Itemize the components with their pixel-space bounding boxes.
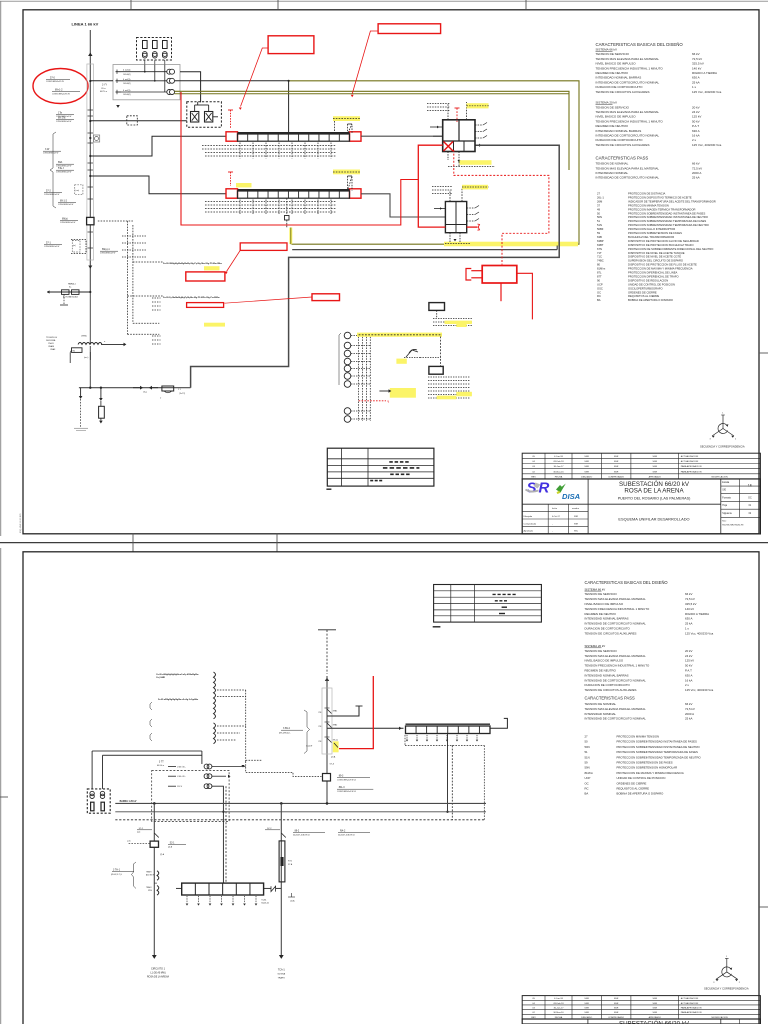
svg-text:DISPOSITIVO DE REGULACION: DISPOSITIVO DE REGULACION xyxy=(628,278,668,282)
svg-text:630 A: 630 A xyxy=(685,673,692,677)
svg-text:30-Jun-17: 30-Jun-17 xyxy=(554,1008,565,1010)
svg-text:TRAFO: TRAFO xyxy=(278,977,286,980)
svg-text:INDICADOR DE TEMPERATURA DEL A: INDICADOR DE TEMPERATURA DEL ACEITE DEL … xyxy=(628,199,716,203)
svg-text:27: 27 xyxy=(597,192,600,196)
metering row 3 xyxy=(116,91,122,93)
breaker 52-1 xyxy=(150,841,158,847)
svg-text:26L-1: 26L-1 xyxy=(597,195,604,199)
red dashed link xyxy=(359,400,386,402)
svg-text:26M: 26M xyxy=(597,199,603,203)
svg-text:ESQUEMA UNIFILAR DESARROLLAD: ESQUEMA UNIFILAR DESARROLLADO xyxy=(618,517,689,522)
sheet 2 drawing frame xyxy=(23,552,759,1029)
svg-text:PARA APROBACION: PARA APROBACION xyxy=(681,1011,702,1014)
svg-text:CONV.DESN-5x9 W: CONV.DESN-5x9 W xyxy=(56,172,72,174)
svg-text:CARACTERISTICAS BASICAS DEL: CARACTERISTICAS BASICAS DEL DISEÑO xyxy=(596,42,684,47)
svg-text:DURACION DE CORTOCIRCUITO: DURACION DE CORTOCIRCUITO xyxy=(596,85,644,89)
svg-text:DISPOSITIVO DE NIVEL DE ACEITE: DISPOSITIVO DE NIVEL DE ACEITE CGTE xyxy=(628,255,681,259)
svg-text:(Ta-): (Ta-) xyxy=(143,392,147,394)
svg-text:4 rail(1): 4 rail(1) xyxy=(123,78,131,81)
PASS red box left legs xyxy=(471,270,482,272)
metering box 3 rows xyxy=(113,65,180,100)
svg-text:2 s: 2 s xyxy=(692,138,697,142)
red leader to row2 box xyxy=(225,297,313,303)
svg-text:PROTECCION SOBRETENSION HOMOPO: PROTECCION SOBRETENSION HOMOPOLAR xyxy=(617,766,678,770)
svg-text:3 TT: 3 TT xyxy=(159,761,164,764)
mini cable table xyxy=(327,448,434,486)
svg-text:24 kV: 24 kV xyxy=(685,654,692,658)
svg-text:63B: 63B xyxy=(597,235,602,239)
svg-text:A52 W3 W: A52 W3 W xyxy=(146,873,154,876)
svg-text:CONV.DESN-5x9/5 W: CONV.DESN-5x9/5 W xyxy=(52,93,70,95)
svg-text:↯: ↯ xyxy=(387,400,390,404)
svg-text:CONV.DESN-5x9 W: CONV.DESN-5x9 W xyxy=(44,194,60,196)
CT circle column xyxy=(344,332,351,339)
brace marks left xyxy=(150,702,152,710)
svg-text:3 (2) W: 3 (2) W xyxy=(306,746,312,748)
svg-text:81M/m: 81M/m xyxy=(585,771,594,775)
svg-text:TENSION DE SERVICIO: TENSION DE SERVICIO xyxy=(585,592,618,596)
left down branch with earth xyxy=(80,388,82,396)
T2 upper-left dashed rows xyxy=(432,186,452,188)
svg-text:AUTOVALVULAS: AUTOVALVULAS xyxy=(63,296,78,299)
svg-text:105-66(1): 105-66(1) xyxy=(123,94,131,96)
svg-text:72,5 kV: 72,5 kV xyxy=(692,166,702,170)
svg-text:66 kV: 66 kV xyxy=(685,702,692,706)
sheet2 main title block partial xyxy=(522,1019,760,1024)
red reference box mid xyxy=(240,243,287,251)
yellow tap busbar B2 left xyxy=(236,183,252,187)
svg-text:TENSION MAS ELEVADA PARA EL MA: TENSION MAS ELEVADA PARA EL MATERIAL xyxy=(585,707,647,711)
contact 89-1w xyxy=(327,738,332,743)
svg-text:1Ta: 1Ta xyxy=(58,112,63,115)
svg-text:U 66:√3/...: U 66:√3/... xyxy=(177,775,187,778)
svg-text:L1 (50,40 MW): L1 (50,40 MW) xyxy=(150,973,165,975)
svg-text:TENSION MAS ELEVADA PARA EL MA: TENSION MAS ELEVADA PARA EL MATERIAL xyxy=(585,654,647,658)
svg-text:DIBUJADO: DIBUJADO xyxy=(581,475,592,478)
svg-text:PROTECCION SOBRETENSION DE FAS: PROTECCION SOBRETENSION DE FASES xyxy=(617,761,673,765)
big yellow mark + arrow xyxy=(390,388,416,398)
dashed box around VT xyxy=(152,771,229,822)
svg-text:50 kV: 50 kV xyxy=(692,119,700,123)
svg-text:(2) A: (2) A xyxy=(331,756,336,759)
svg-text:4 rail(1): 4 rail(1) xyxy=(123,69,131,72)
CT circles lower pair xyxy=(344,408,351,415)
svg-text:SSR: SSR xyxy=(584,1008,589,1010)
svg-text:(89-1/89-4) L: (89-1/89-4) L xyxy=(279,732,291,734)
svg-text:49: 49 xyxy=(597,207,600,211)
motor drive symbol right of feeder xyxy=(94,135,100,142)
main title block xyxy=(522,479,760,534)
svg-text:89-3: 89-3 xyxy=(339,776,344,778)
svg-text:51: 51 xyxy=(585,750,589,754)
T1 top dashed stubs xyxy=(447,104,449,120)
rows below lower cabinet + yellow xyxy=(428,376,470,378)
svg-text:89-1w: 89-1w xyxy=(333,740,339,742)
svg-text:2000 A: 2000 A xyxy=(685,712,694,716)
T2 top dashed stubs xyxy=(449,190,451,202)
busbar B2 red right cap xyxy=(350,189,362,198)
svg-text:PARA APROBACION: PARA APROBACION xyxy=(681,470,702,473)
svg-text:TENSION DE CIRCUITOS AUXILIARE: TENSION DE CIRCUITOS AUXILIARES xyxy=(596,143,650,147)
svg-text:CONV.DESN-5x9 W: CONV.DESN-5x9 W xyxy=(58,204,74,206)
svg-text:66 kV: 66 kV xyxy=(692,52,700,56)
svg-text:4-Jun-18: 4-Jun-18 xyxy=(554,998,563,1000)
svg-text:TR 66/20 kV: TR 66/20 kV xyxy=(46,337,58,339)
VT row 3 xyxy=(168,785,176,787)
svg-text:74BC: 74BC xyxy=(597,259,604,263)
yellow vertical tap to olive xyxy=(289,228,292,245)
svg-text:5Ta J: 5Ta J xyxy=(58,167,65,170)
yellow highlight T2 top xyxy=(462,185,488,190)
svg-text:ACTUALIZACION: ACTUALIZACION xyxy=(681,460,699,463)
low busbar sheet2 xyxy=(182,883,264,895)
olive supervision line B xyxy=(175,91,570,170)
svg-text:Fa.05.05MgMgMaMgMaMy.Mg.Py.Mg.: Fa.05.05MgMgMaMgMaMy.Mg.Py.Mg.Mw.05g.P5.… xyxy=(163,263,222,265)
svg-text:PROTECCION SOBREINTENSIDAD TEM: PROTECCION SOBREINTENSIDAD TEMPORIZADA D… xyxy=(628,219,706,223)
T2 bottom dashed stubs xyxy=(449,233,451,243)
svg-text:INTENSIDAD NOMINAL BARRAS: INTENSIDAD NOMINAL BARRAS xyxy=(585,617,629,621)
svg-text:59: 59 xyxy=(597,231,600,235)
svg-text:630 A: 630 A xyxy=(692,129,700,133)
svg-text:09-Feb-18: 09-Feb-18 xyxy=(553,1003,564,1005)
svg-text:SISTEMA 66 kV: SISTEMA 66 kV xyxy=(596,48,618,52)
svg-text:LINEA 1 66 kV: LINEA 1 66 kV xyxy=(72,22,99,27)
svg-text:CONV.DESN-5x9 W: CONV.DESN-5x9 W xyxy=(43,153,59,155)
svg-text:TENSION FRECUENCIA INDUSTRIAL: TENSION FRECUENCIA INDUSTRIAL 1 MINUTO xyxy=(596,66,664,70)
svg-text:89A: 89A xyxy=(58,161,63,164)
table content dashes xyxy=(389,461,409,463)
fuse branch down xyxy=(100,388,102,398)
olive supervision line B2 xyxy=(175,93,570,95)
dash below table sheet2 xyxy=(433,626,441,628)
yellow mark on contact xyxy=(333,741,339,752)
svg-text:PROTECCION MINIMA TENSION: PROTECCION MINIMA TENSION xyxy=(617,735,660,739)
feeder circuito1 vertical xyxy=(153,803,155,955)
svg-text:04-05/07-10 A/ W 04: 04-05/07-10 A/ W 04 xyxy=(338,833,354,836)
svg-text:YNd11: YNd11 xyxy=(48,343,54,345)
T2 right stubs xyxy=(467,207,475,209)
20kV output bus xyxy=(79,387,191,389)
CT tall rect TCA1 xyxy=(279,841,285,882)
branch right at 716 xyxy=(327,706,359,716)
svg-text:16 kA: 16 kA xyxy=(685,678,692,682)
dashed bracket under 52 xyxy=(71,240,86,248)
sheet 2 page edges xyxy=(0,548,2,1024)
svg-text:Hoja: Hoja xyxy=(722,505,727,507)
svg-text:30-Nov-16: 30-Nov-16 xyxy=(553,1012,564,1014)
busbar B1 red left cap xyxy=(226,132,238,141)
svg-text:OC: OC xyxy=(597,290,601,294)
svg-text:NIVEL BASICO DE IMPULSO: NIVEL BASICO DE IMPULSO xyxy=(585,659,624,663)
svg-text:MODIFICACION: MODIFICACION xyxy=(711,475,728,478)
svg-text:125 Vcc, 400/230 Vca: 125 Vcc, 400/230 Vca xyxy=(692,143,722,147)
svg-text:1 s: 1 s xyxy=(692,85,697,89)
svg-text:CONV.DESN-5x9 W 04: CONV.DESN-5x9 W 04 xyxy=(337,791,356,793)
svg-text:CARACTERISTICAS BASICAS DEL: CARACTERISTICAS BASICAS DEL DISEÑO xyxy=(585,580,668,585)
svg-text:REV: REV xyxy=(531,476,536,478)
red empty box row1 xyxy=(186,272,225,281)
svg-text:(acc): (acc) xyxy=(84,357,89,359)
sheet2 red trip wire xyxy=(339,676,373,749)
contact 89B1 xyxy=(327,709,332,714)
svg-text:SSR: SSR xyxy=(614,456,619,458)
svg-text:81M/m: 81M/m xyxy=(597,267,606,271)
svg-text:ONAN/: ONAN/ xyxy=(48,345,54,348)
svg-text:SSR: SSR xyxy=(653,998,658,1000)
yellow highlight T1 top xyxy=(467,103,489,108)
red leader to row1 box xyxy=(227,250,241,271)
svg-text:50 MVA: 50 MVA xyxy=(277,973,285,976)
20kV bus dashed line xyxy=(115,819,484,821)
svg-text:CIRCUITO 1: CIRCUITO 1 xyxy=(151,968,166,971)
svg-text:63BP: 63BP xyxy=(597,239,604,243)
svg-text:PROTECCION SOBREINTENSIDAD TEM: PROTECCION SOBREINTENSIDAD TEMPORIZADA D… xyxy=(617,755,702,759)
svg-text:71T: 71T xyxy=(597,251,602,255)
TT dashed box with elements xyxy=(87,789,110,813)
svg-text:CONV.DESN-5x9 W: CONV.DESN-5x9 W xyxy=(60,222,76,224)
neutral dashed with circle xyxy=(89,352,91,360)
coil column mid xyxy=(214,723,216,744)
arrow down small under metering xyxy=(116,105,120,108)
yellow small mark xyxy=(396,359,406,364)
svg-text:TENSION DE SERVICIO: TENSION DE SERVICIO xyxy=(596,52,630,56)
svg-text:SSR: SSR xyxy=(653,1008,658,1010)
red X fault mark on T1 xyxy=(444,142,454,152)
fold mark right edge sheet1 xyxy=(759,352,768,354)
svg-text:(ae): (ae) xyxy=(137,831,141,833)
svg-text:R6L7ML7MU7MU5L7M: R6L7ML7MU7MU5L7M xyxy=(722,524,743,526)
breaker symbol on 20kV bus xyxy=(162,386,174,391)
svg-text:1E: 1E xyxy=(748,484,753,488)
svg-text:ORDENES DE CIERRE: ORDENES DE CIERRE xyxy=(628,290,657,294)
svg-text:PROTECCION DIFERENCIAL DE LINE: PROTECCION DIFERENCIAL DE LINEA xyxy=(628,271,678,275)
svg-text:71C: 71C xyxy=(597,255,602,259)
svg-text:CONV.DESN-5x9 W: CONV.DESN-5x9 W xyxy=(56,121,72,123)
arrow up on feeder xyxy=(88,52,92,56)
svg-text:20 kV: 20 kV xyxy=(692,105,700,109)
svg-text:25 kA: 25 kA xyxy=(692,80,700,84)
sheet2 bay outline xyxy=(322,688,332,754)
svg-text:OSCILOPERTURBOGRAFO: OSCILOPERTURBOGRAFO xyxy=(628,286,663,290)
svg-text:SSR: SSR xyxy=(584,998,589,1000)
svg-text:125 Vcc, 400/230 Vca: 125 Vcc, 400/230 Vca xyxy=(692,90,722,94)
svg-text:3 W: 3 W xyxy=(45,148,50,151)
svg-text:89-2: 89-2 xyxy=(295,830,300,832)
svg-text:RC: RC xyxy=(585,787,589,791)
svg-text:INTENSIDAD DE CORTOCIRCUITO NO: INTENSIDAD DE CORTOCIRCUITO NOMINAL xyxy=(596,134,660,138)
svg-text:89L-3: 89L-3 xyxy=(339,787,346,789)
svg-text:37: 37 xyxy=(597,203,600,207)
svg-text:ROSA DE LA ARENA: ROSA DE LA ARENA xyxy=(624,488,684,495)
svg-text:TENSION DE NOMINAL: TENSION DE NOMINAL xyxy=(596,162,629,166)
svg-text:(m): (m) xyxy=(73,245,76,247)
feeder TCA1 vertical xyxy=(280,803,282,955)
svg-text:(Ta-T2): (Ta-T2) xyxy=(179,393,185,395)
svg-text:SSR: SSR xyxy=(653,456,658,458)
arrow on T1 output xyxy=(479,144,482,147)
busbar C verticals to LV bus xyxy=(447,733,449,811)
red callout box top2 xyxy=(378,24,441,34)
busbar C dashed outline below xyxy=(405,744,484,746)
T1 left stubs xyxy=(430,126,443,128)
busbar B2 body xyxy=(238,191,350,198)
dashed relay on wire xyxy=(127,116,138,125)
svg-text:P.A.T: P.A.T xyxy=(692,124,699,128)
contact on circuito1 xyxy=(154,833,159,838)
svg-text:4-Oct-17: 4-Oct-17 xyxy=(552,515,561,518)
busbar C right riser xyxy=(490,718,507,728)
T1 bottom dashed stubs + yellow xyxy=(447,152,449,161)
transformer T2 (66/20kV) xyxy=(445,202,466,233)
svg-text:PROTECCION DISPOSITIVO TERMICO: PROTECCION DISPOSITIVO TERMICO DE ACEITE xyxy=(628,195,692,199)
svg-text:72,5 kV: 72,5 kV xyxy=(685,597,695,601)
svg-text:25 kA: 25 kA xyxy=(692,176,700,180)
yellow highlight on olive bottom xyxy=(444,242,578,247)
transformer T1 (66/20kV) xyxy=(443,120,475,152)
svg-text:DURACION DE CORTOCIRCUITO: DURACION DE CORTOCIRCUITO xyxy=(585,627,631,631)
svg-text:50/63 MVA: 50/63 MVA xyxy=(46,339,56,342)
svg-text:FECHA: FECHA xyxy=(555,475,563,478)
svg-text:BA: BA xyxy=(597,298,601,302)
svg-text:OC: OC xyxy=(585,781,589,785)
svg-text:72,5 kV: 72,5 kV xyxy=(692,57,702,61)
svg-text:SSR: SSR xyxy=(584,456,589,458)
revision table xyxy=(522,453,760,479)
svg-text:TENSION DE CIRCUITOS AUXILIARE: TENSION DE CIRCUITOS AUXILIARES xyxy=(585,688,637,692)
coil column upper xyxy=(214,672,216,719)
fold marks top xyxy=(130,0,132,10)
wire row2 long xyxy=(90,80,113,82)
svg-text:125 kV: 125 kV xyxy=(685,659,694,663)
TR tap box xyxy=(72,348,83,353)
svg-text:REGIMEN DE NEUTRO: REGIMEN DE NEUTRO xyxy=(585,669,617,673)
svg-text:COMPROBADO: COMPROBADO xyxy=(608,475,624,478)
svg-text:nombre: nombre xyxy=(572,507,580,510)
svg-text:2 s: 2 s xyxy=(685,683,689,687)
svg-text:PROTECCION FALLO INTERRUPTOR: PROTECCION FALLO INTERRUPTOR xyxy=(628,227,675,231)
red riser from relay box xyxy=(181,92,418,225)
busbar B1 red right cap xyxy=(350,132,362,141)
red dashed marker at B1 left xyxy=(230,110,232,128)
svg-text:66 kV: 66 kV xyxy=(692,162,700,166)
svg-text:INTENSIDAD NOMINAL: INTENSIDAD NOMINAL xyxy=(585,712,617,716)
T1 upper-left dashed rows xyxy=(427,103,450,105)
svg-text:Fa.05.a5MgMgMgMgMa.a5.a5g.5+5g: Fa.05.a5MgMgMgMgMa.a5.a5g.5+5gdMw xyxy=(158,699,199,701)
svg-text:TENSION DE SERVICIO: TENSION DE SERVICIO xyxy=(596,105,630,109)
svg-text:INTENSIDAD DE CORTOCIRCUITO NO: INTENSIDAD DE CORTOCIRCUITO NOMINAL xyxy=(585,622,647,626)
wire row2 drop to busbar1 xyxy=(288,81,290,134)
svg-text:50: 50 xyxy=(597,211,600,215)
sheet2 mini table xyxy=(434,585,542,623)
red dashed stub near recloser xyxy=(456,108,458,122)
svg-text:PROTECCION SOBREINTENSIDAD TEM: PROTECCION SOBREINTENSIDAD TEMPORIZADA D… xyxy=(628,223,709,227)
phase sequence symbol xyxy=(722,415,724,429)
svg-text:S/E: S/E xyxy=(722,490,726,492)
CT element 2 xyxy=(153,41,158,49)
svg-text:SSR: SSR xyxy=(614,1008,619,1010)
svg-text:TENSION FRECUENCIA INDUSTRIAL: TENSION FRECUENCIA INDUSTRIAL 1 MINUTO xyxy=(585,664,650,668)
svg-text:Fa) GMR: Fa) GMR xyxy=(156,677,165,679)
busbar B1 body xyxy=(238,134,350,141)
svg-text:66/TL w: 66/TL w xyxy=(100,91,108,93)
svg-text:72,5 kV: 72,5 kV xyxy=(685,707,695,711)
junction dots on feeder xyxy=(89,80,91,82)
svg-text:TENSION FRECUENCIA INDUSTRIAL: TENSION FRECUENCIA INDUSTRIAL 1 MINUTO xyxy=(585,607,650,611)
rows below upper cabinet + yellow xyxy=(433,318,472,320)
svg-text:30-Nov-16: 30-Nov-16 xyxy=(553,471,564,473)
red wire T2 right tail xyxy=(467,226,478,228)
svg-text:SSR: SSR xyxy=(584,466,589,468)
svg-text:ORDENES DE CIERRE: ORDENES DE CIERRE xyxy=(617,781,647,785)
sheet2 incoming feeder dashed xyxy=(318,629,336,631)
svg-text:SSR: SSR xyxy=(653,471,658,473)
dashed grid verticals xyxy=(358,334,360,421)
svg-text:SSR: SSR xyxy=(614,1012,619,1014)
svg-text:1 s: 1 s xyxy=(685,627,689,631)
svg-text:DURACION DE CORTOCIRCUITO: DURACION DE CORTOCIRCUITO xyxy=(585,683,631,687)
svg-text:4 rail(1): 4 rail(1) xyxy=(123,89,131,92)
metering row 2 xyxy=(116,80,122,82)
svg-text:REGIMEN DE NEUTRO: REGIMEN DE NEUTRO xyxy=(585,612,617,616)
svg-text:SSR: SSR xyxy=(614,1003,619,1005)
olive supervision loop A xyxy=(289,81,579,244)
CT element 3 xyxy=(163,41,168,49)
svg-text:PROTECCION DE SOBRECORRIENTE D: PROTECCION DE SOBRECORRIENTE DIRECCIONAL… xyxy=(628,247,713,251)
svg-text:DISPOSITIVO DE PROTECCION ALIV: DISPOSITIVO DE PROTECCION ALIVIO DE SEGU… xyxy=(628,239,699,243)
svg-text:ACTUALIZACION: ACTUALIZACION xyxy=(681,997,699,1000)
branch to right busbar at 728 xyxy=(327,727,404,729)
transformer TR coil xyxy=(78,342,102,344)
PASS red box bottom leg xyxy=(500,283,502,301)
svg-text:UNIDAD DE CONTROL DE POSICION: UNIDAD DE CONTROL DE POSICION xyxy=(617,776,666,780)
svg-text:PROTECCION SOBREINTENSIDAD INS: PROTECCION SOBREINTENSIDAD INSTANTANEA D… xyxy=(617,740,698,744)
svg-text:TENSION MAS ELEVADA PARA EL MA: TENSION MAS ELEVADA PARA EL MATERIAL xyxy=(596,110,660,114)
svg-text:Escala: Escala xyxy=(722,482,730,484)
switch 89-3 box xyxy=(323,774,331,782)
svg-text:TENSION MAS ELEVADA PARA EL MA: TENSION MAS ELEVADA PARA EL MATERIAL xyxy=(596,166,660,170)
svg-text:Siguiente: Siguiente xyxy=(722,512,732,515)
red wire to T1 xyxy=(418,145,445,227)
svg-text:67N: 67N xyxy=(597,247,602,251)
line side small ticks xyxy=(88,109,94,111)
T1 right stubs xyxy=(475,124,483,126)
svg-text:140 kV: 140 kV xyxy=(685,607,694,611)
svg-text:50N: 50N xyxy=(585,745,590,749)
svg-text:3P50: 3P50 xyxy=(148,890,152,892)
fold marks between sheets xyxy=(132,534,134,552)
svg-text:80: 80 xyxy=(597,263,600,267)
svg-text:SSR: SSR xyxy=(574,523,579,525)
svg-text:Comprobado: Comprobado xyxy=(524,522,537,525)
grey trunk loop xyxy=(191,145,560,388)
red ellipse marker around 57-0 xyxy=(33,69,88,104)
svg-text:3 YY: 3 YY xyxy=(102,84,108,87)
red dashed trip path xyxy=(454,150,549,265)
svg-text:57-1: 57-1 xyxy=(139,828,144,830)
svg-text:SECUENCIA Y CORRESPONDENCIA: SECUENCIA Y CORRESPONDENCIA xyxy=(700,445,745,449)
svg-text:89+1-2: 89+1-2 xyxy=(55,89,63,92)
svg-text:Dibujado: Dibujado xyxy=(524,516,533,518)
svg-text:TENSION FRECUENCIA INDUSTRIAL: TENSION FRECUENCIA INDUSTRIAL 1 MINUTO xyxy=(596,119,664,123)
svg-text:PROTECCION MINIMA TENSION: PROTECCION MINIMA TENSION xyxy=(628,203,669,207)
svg-text:(65-62,5-T) L: (65-62,5-T) L xyxy=(111,874,122,876)
VT row 2 xyxy=(168,775,176,777)
svg-text:CL/cr: CL/cr xyxy=(101,88,106,90)
TR arrow line right xyxy=(101,343,125,345)
svg-text:INTENSIDAD NOMINAL BARRAS: INTENSIDAD NOMINAL BARRAS xyxy=(596,129,642,133)
svg-text:RIGIDO A TIERRA: RIGIDO A TIERRA xyxy=(685,612,709,616)
svg-text:PROTECCION DE MAXIMA Y MINIMA: PROTECCION DE MAXIMA Y MINIMA FRECUENCIA xyxy=(617,771,684,775)
